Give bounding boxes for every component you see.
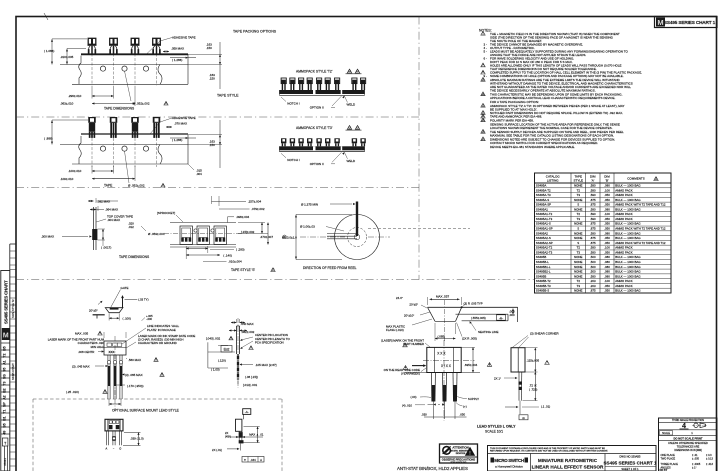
svg-text:.012: .012	[128, 225, 134, 229]
svg-text:THREE PLACE: THREE PLACE	[661, 463, 679, 466]
optional SMT dashed box	[33, 398, 282, 400]
svg-text:BULK — 1000 BAG: BULK — 1000 BAG	[615, 255, 641, 259]
svg-text:.000: .000	[509, 313, 515, 317]
svg-text:'A': 'A'	[591, 178, 595, 182]
svg-text:XXX: XXX	[109, 350, 115, 354]
svg-text:.310±.005: .310±.005	[60, 55, 74, 59]
ammopack sensor	[299, 78, 304, 84]
svg-text:TAPE DIMENSIONS: TAPE DIMENSIONS	[119, 255, 150, 259]
sensor legs	[110, 46, 112, 50]
svg-text:.044: .044	[250, 458, 256, 462]
sensor centerline	[134, 54, 136, 86]
note line	[481, 63, 485, 67]
svg-text:± .005: ± .005	[692, 457, 700, 460]
svg-text:SS495B: SS495B	[536, 255, 547, 259]
svg-text:.115±.005: .115±.005	[527, 359, 540, 363]
svg-text:Ø 13.0±1.0: Ø 13.0±1.0	[282, 235, 297, 239]
svg-text:AMMO PACK: AMMO PACK	[615, 217, 633, 221]
svg-text:TAPE STYLE T2: TAPE STYLE T2	[12, 299, 15, 318]
ammopack leader WELD	[342, 152, 344, 155]
svg-text:(.085): (.085)	[438, 335, 446, 339]
svg-text:GATE: GATE	[121, 286, 129, 290]
note line	[481, 111, 485, 115]
svg-text:( .100): ( .100)	[123, 317, 131, 321]
svg-text:.050: .050	[604, 241, 610, 245]
side view lead tip extension	[519, 401, 521, 414]
tape drawing 1 - bottom dim .296	[91, 86, 93, 99]
ammopack notches in tape	[313, 90, 316, 94]
svg-text:.030: .030	[421, 413, 427, 417]
svg-text:.080: .080	[604, 207, 610, 211]
svg-text:.203: .203	[590, 284, 596, 288]
svg-text:2X (.01): 2X (.01)	[212, 448, 222, 452]
ammopack sensor	[352, 138, 357, 143]
reel drawing - inner dashed hub	[348, 228, 367, 247]
svg-text:SP: SP	[3, 402, 7, 407]
svg-text:S: S	[577, 227, 579, 231]
tape drawing 1 - sprocket dia label	[125, 71, 132, 101]
svg-text:SHEET 1 OF 1: SHEET 1 OF 1	[621, 467, 639, 471]
sensor package on tape (style T2)	[131, 38, 139, 44]
svg-text:SCALE 10/1: SCALE 10/1	[485, 430, 503, 434]
svg-text:BULK — 1000 BAG: BULK — 1000 BAG	[615, 231, 641, 235]
svg-text:DEVICES: DEVICES	[456, 453, 466, 455]
side view gauge box	[519, 415, 528, 420]
svg-text:T2: T2	[577, 279, 581, 283]
SMT feature control frame	[242, 457, 264, 463]
lead centerline extension	[454, 402, 456, 420]
svg-text:.040 MAX: .040 MAX	[241, 322, 254, 326]
svg-text:'B': 'B'	[605, 178, 609, 182]
side view bottom dim	[505, 406, 516, 408]
svg-text:NONE: NONE	[574, 255, 582, 259]
svg-text:.080: .080	[604, 274, 610, 278]
svg-text:T3: T3	[577, 250, 581, 254]
svg-text:.203: .203	[590, 279, 596, 283]
svg-text:.039 ( 1.0): .039 ( 1.0)	[130, 437, 144, 441]
tape drawing 1 - carrier bottom edge	[72, 83, 188, 85]
svg-text:SS495A-T2: SS495A-T2	[536, 188, 551, 192]
svg-text:THIS DOCUMENT CONTAINS A DISCL: THIS DOCUMENT CONTAINS A DISCLOSURE CARD…	[490, 447, 605, 450]
sensor shoulder	[152, 44, 161, 46]
svg-text:BULK — 1000 BAG: BULK — 1000 BAG	[615, 183, 641, 187]
svg-text:.875: .875	[590, 236, 596, 240]
svg-text:WELD: WELD	[347, 103, 357, 107]
table row SS495A1-T3	[535, 220, 672, 222]
svg-text:ANTI-STAT BIN/BOX, HLD2 APPLIE: ANTI-STAT BIN/BOX, HLD2 APPLIES	[397, 466, 468, 471]
revision strip bottom sub-box	[2, 438, 8, 446]
ammopack sensor	[361, 78, 366, 84]
svg-text:BULK — 1000 BAG: BULK — 1000 BAG	[615, 274, 641, 278]
svg-text:(3) R .005 TYP: (3) R .005 TYP	[464, 301, 483, 305]
svg-text:AMMO PACK: AMMO PACK	[615, 250, 633, 254]
tape drawing 2 - right edge	[187, 135, 189, 164]
sensor legs	[132, 46, 134, 50]
svg-text:.560 MAX: .560 MAX	[128, 358, 141, 362]
svg-text:NONE: NONE	[574, 274, 582, 278]
svg-text:.875: .875	[590, 203, 596, 207]
tape drawing 2 - right vertical dim	[219, 120, 221, 168]
svg-text:[.013] .001: [.013] .001	[243, 383, 258, 387]
svg-text:AMMO PACK WITH T2 TAPE AND T12: AMMO PACK WITH T2 TAPE AND T12	[615, 227, 666, 231]
lead dambar bump	[113, 361, 116, 364]
svg-text:(.120): (.120)	[218, 358, 226, 362]
svg-text:.875: .875	[590, 289, 596, 293]
tape drawing 1 - break wave	[158, 65, 162, 85]
svg-text:OPTION II: OPTION II	[310, 162, 324, 166]
SMT side view lead	[238, 431, 240, 443]
svg-text:.100: .100	[604, 246, 610, 250]
note line	[481, 31, 485, 35]
svg-text:.050: .050	[460, 413, 466, 417]
svg-text:6 -: 6 -	[484, 56, 488, 60]
title block divider	[488, 453, 657, 455]
svg-text:.875: .875	[590, 222, 596, 226]
svg-text:DIMENSIONS IN IN [MM]: DIMENSIONS IN IN [MM]	[674, 449, 702, 452]
svg-text:(.03 TY): (.03 TY)	[138, 298, 148, 302]
title block outer box	[488, 446, 657, 471]
svg-text:SS495B-S: SS495B-S	[536, 289, 550, 293]
svg-text:20°±5°: 20°±5°	[89, 309, 98, 313]
svg-text:SS495A-S: SS495A-S	[536, 198, 550, 202]
svg-text:.100: .100	[604, 279, 610, 283]
svg-text:a Honeywell Division: a Honeywell Division	[495, 464, 523, 468]
table column line	[613, 173, 615, 293]
svg-text:.105 MAX [2.67]: .105 MAX [2.67]	[255, 363, 277, 367]
svg-text:AMMO PACK WITH T2 TAPE AND T12: AMMO PACK WITH T2 TAPE AND T12	[615, 203, 666, 207]
svg-text:(3) .065 MAX: (3) .065 MAX	[125, 373, 143, 377]
svg-text:2X: 2X	[225, 431, 228, 435]
svg-text:5 -: 5 -	[484, 49, 488, 53]
gate location arrow	[122, 298, 124, 308]
svg-text:(.04): (.04)	[411, 395, 417, 399]
tape front detail - package pocket	[214, 226, 226, 244]
svg-text:SS495A2-T2: SS495A2-T2	[536, 246, 553, 250]
svg-text:A: A	[260, 458, 262, 462]
svg-text:MAX .557: MAX .557	[436, 295, 450, 299]
tape drawing 2 - sprocket holes	[100, 146, 105, 151]
horizontal phantom separator line 1	[16, 116, 419, 118]
table row SS495B	[535, 278, 672, 280]
tape side view sensor block	[92, 229, 97, 240]
svg-text:( .280): ( .280)	[236, 248, 245, 252]
svg-text:.010±.004: .010±.004	[228, 260, 242, 264]
svg-text:.296±.010: .296±.010	[68, 94, 82, 98]
tape drawing 1 - left torn edge	[79, 56, 82, 85]
ammopack leader NOTCH I	[281, 97, 286, 102]
reel drawing - mandrel bar	[356, 202, 358, 237]
ammopack leader WELD	[342, 96, 344, 99]
svg-text:.470±.007: .470±.007	[260, 235, 274, 239]
tape drawing 1 - adhesive tape bar	[81, 53, 188, 55]
note line	[481, 70, 485, 74]
sensor shoulder	[88, 44, 97, 46]
svg-text:RETURNED UPON REQUEST. ITS CO: RETURNED UPON REQUEST. ITS CONTENTS MAY …	[490, 449, 608, 452]
ammopack sensor	[307, 78, 312, 84]
svg-text:A2: A2	[3, 395, 7, 400]
tape drawing 2 - adhesive tape bar	[81, 133, 188, 135]
svg-text:S: S	[577, 241, 579, 245]
sensor centerline	[113, 138, 115, 167]
svg-text:.050: .050	[604, 236, 610, 240]
top view right end	[517, 307, 519, 322]
svg-text:SS495B1-L: SS495B1-L	[536, 265, 551, 269]
svg-text:PCA SPECIFICATION: PCA SPECIFICATION	[255, 340, 284, 344]
svg-text:± .013: ± .013	[706, 463, 714, 466]
svg-text:T1: T1	[3, 409, 7, 413]
svg-text:( 1.086): ( 1.086)	[44, 49, 54, 53]
svg-text:AMMOPACK STYLE 'T2': AMMOPACK STYLE 'T2'	[296, 70, 333, 74]
tape drawing 1 - left dim 1.086	[51, 39, 53, 65]
svg-text:.875: .875	[590, 198, 596, 202]
svg-text:(2X R .005): (2X R .005)	[462, 336, 477, 340]
svg-text:TOLERANCES ARE: TOLERANCES ARE	[677, 445, 700, 448]
tape drawing 2 - break wave	[158, 145, 162, 165]
svg-text:(3) SHEAR CORNER: (3) SHEAR CORNER	[530, 331, 560, 335]
tape front detail - package pocket	[180, 226, 192, 244]
svg-text:[.040] .002: [.040] .002	[206, 336, 221, 340]
SMT side view body	[236, 419, 242, 431]
svg-text:.050: .050	[604, 203, 610, 207]
ammopack sensor	[316, 138, 321, 143]
svg-text:.157±.004: .157±.004	[248, 200, 262, 204]
gate level mark	[93, 314, 105, 316]
svg-text:-.000: -.000	[146, 317, 152, 321]
table row SS495A-T2	[535, 192, 672, 194]
svg-text:AMMO PACK: AMMO PACK	[615, 212, 633, 216]
svg-text:ATTENTION: ATTENTION	[452, 446, 468, 450]
note line	[481, 129, 485, 133]
SMT front view body	[105, 419, 123, 431]
svg-text:49: 49	[3, 431, 7, 435]
side profile crossing dims	[218, 345, 228, 347]
svg-text:DWG NO 150AB5: DWG NO 150AB5	[620, 455, 641, 459]
horizontal phantom separator line 2	[16, 187, 419, 189]
svg-text:SS: SS	[3, 374, 7, 379]
svg-text:.050: .050	[604, 289, 610, 293]
svg-text:.079±.002: .079±.002	[251, 207, 265, 211]
tape drawing 1 - carrier upper edge	[60, 64, 188, 66]
svg-text:( 1.286): ( 1.286)	[172, 58, 182, 62]
svg-text:T2: T2	[577, 246, 581, 250]
lead centerline extension	[432, 402, 434, 420]
svg-text:9 -: 9 -	[484, 74, 488, 78]
ammopack leader OPTION II	[332, 96, 342, 106]
svg-text:NOTCH I: NOTCH I	[287, 102, 299, 106]
tape drawing 2 - bottom dim .109	[134, 166, 136, 181]
svg-text:SS495B: SS495B	[536, 274, 547, 278]
svg-text:OPTION II: OPTION II	[310, 106, 324, 110]
ammopack sensor	[334, 138, 339, 143]
lead centerline extension	[444, 402, 446, 420]
scale row	[659, 429, 718, 431]
ESD warning triangle	[465, 447, 475, 456]
ESD hand symbol	[442, 446, 451, 455]
table row SS495B1-L	[535, 268, 672, 270]
svg-text:MAX ▲ .01: MAX ▲ .01	[249, 432, 264, 436]
svg-text:TAPE: TAPE	[104, 184, 113, 188]
tape drawing 1 - adhesive tape leader	[160, 38, 172, 42]
svg-text:A1: A1	[3, 360, 7, 365]
svg-text:PLATE' IN PACKAGE: PLATE' IN PACKAGE	[147, 328, 176, 332]
svg-text:(YEAR/WEEK): (YEAR/WEEK)	[401, 372, 420, 376]
table row SS495A2-T3	[535, 254, 672, 256]
ammopack tape bar	[279, 146, 364, 150]
svg-text:[SPROCKET]: [SPROCKET]	[157, 211, 175, 215]
svg-text:.080: .080	[604, 255, 610, 259]
svg-text:BULK — 1000 BAG: BULK — 1000 BAG	[615, 207, 641, 211]
svg-text:SS495A1-S: SS495A1-S	[536, 222, 551, 226]
svg-text:.080: .080	[604, 265, 610, 269]
big front view seating ext	[405, 372, 480, 374]
svg-text:( 1.00): ( 1.00)	[211, 368, 220, 372]
svg-text:± .0005: ± .0005	[692, 463, 701, 466]
svg-text:(3) .045 MAX: (3) .045 MAX	[72, 364, 90, 368]
svg-text:BULK — 1000 BAG: BULK — 1000 BAG	[615, 270, 641, 274]
ammopack sensor	[325, 78, 330, 84]
svg-text:SS495 SERIES CHART: SS495 SERIES CHART	[4, 280, 9, 324]
svg-text:.150: .150	[206, 46, 212, 50]
table outer border	[535, 173, 672, 293]
sensor centerline	[91, 54, 93, 86]
svg-text:MAX .005: MAX .005	[75, 331, 89, 335]
svg-text:( .140): ( .140)	[223, 254, 232, 258]
tape drawing 1 - bottom dim .063	[134, 86, 136, 106]
svg-text:NONE: NONE	[574, 198, 582, 202]
svg-text:.050: .050	[604, 284, 610, 288]
svg-text:(4) .010: (4) .010	[402, 403, 412, 407]
svg-text:MINIATURE RATIOMETRIC: MINIATURE RATIOMETRIC	[538, 458, 598, 463]
tape drawing 1 - dim .310	[66, 49, 68, 65]
svg-text:X X X: X X X	[437, 351, 446, 355]
SMT mid lead polarity mark	[112, 436, 116, 441]
side view body	[511, 348, 525, 372]
package side profile lead	[236, 354, 238, 380]
svg-text:B5: B5	[3, 346, 7, 351]
svg-text:15061: 15061	[3, 458, 7, 466]
table row SS495A2-T2	[535, 249, 672, 251]
svg-text:.080: .080	[604, 260, 610, 264]
tape drawing 1 - dim 1.286	[170, 57, 196, 59]
svg-text:M: M	[657, 18, 663, 27]
sensor leads through tape	[132, 123, 138, 132]
svg-text:.590: .590	[590, 250, 596, 254]
left revision strip right column stub	[9, 244, 11, 271]
table column line	[585, 173, 587, 293]
package front view (mid-left) body	[104, 341, 126, 355]
svg-text:T3: T3	[3, 381, 7, 385]
ammopack leader NOTCH I	[281, 153, 286, 158]
sensor package on tape (style T2)	[153, 38, 161, 44]
svg-text:NONE: NONE	[574, 289, 582, 293]
svg-text:BULK — 1000 BAG: BULK — 1000 BAG	[615, 198, 641, 202]
top view trapezoid outline	[428, 306, 518, 308]
svg-text:.109±.010: .109±.010	[60, 177, 74, 181]
side profile left bracket	[207, 342, 209, 368]
ammopack sensor	[290, 138, 295, 143]
package side profile centerline	[237, 318, 239, 388]
svg-text:2X 1°: 2X 1°	[494, 376, 501, 380]
note line	[481, 114, 485, 118]
svg-text:(.1 .01): (.1 .01)	[541, 405, 550, 409]
svg-text:SS495A-T3: SS495A-T3	[536, 193, 551, 197]
table row SS495B-T2	[535, 282, 672, 284]
big front view leads	[430, 373, 432, 402]
svg-text:SUPPLY: SUPPLY	[468, 397, 479, 401]
revision strip rows	[1, 342, 10, 344]
svg-text:( .886): ( .886)	[44, 137, 53, 141]
svg-text:.590: .590	[590, 207, 596, 211]
svg-text:NONE: NONE	[574, 270, 582, 274]
table row SS495A1-S	[535, 225, 672, 227]
svg-text:.150: .150	[209, 77, 215, 81]
SMT side view horizontal dim	[228, 436, 263, 438]
ammopack sensor	[352, 78, 357, 84]
reel drawing - tape entering	[327, 233, 357, 235]
svg-text:[.15]±.002: [.15]±.002	[241, 230, 255, 234]
table row SS495A-SP	[535, 206, 672, 208]
svg-text:S: S	[577, 203, 579, 207]
svg-text:OPTIONAL SURFACE MOUNT LEAD ST: OPTIONAL SURFACE MOUNT LEAD STYLE	[112, 409, 180, 413]
svg-text:SS495A1-SP: SS495A1-SP	[536, 227, 553, 231]
svg-text:FOR HANDLING: FOR HANDLING	[451, 461, 467, 464]
svg-text:.300 MAX: .300 MAX	[41, 235, 54, 239]
big front view centerlines	[423, 359, 475, 361]
svg-text:(.25 .010): (.25 .010)	[66, 390, 79, 394]
svg-text:( .0017): ( .0017)	[101, 246, 111, 250]
gate detail boat section	[105, 308, 123, 313]
svg-text:.100: .100	[604, 188, 610, 192]
side profile top dims	[231, 322, 237, 324]
svg-text:TAPE PACKING OPTIONS: TAPE PACKING OPTIONS	[233, 30, 277, 34]
svg-text:.050: .050	[604, 227, 610, 231]
SMT side view datum flag	[243, 409, 251, 415]
tape front detail - carrier outline	[170, 222, 236, 224]
sensor centerline	[156, 138, 158, 167]
table row SS495A1	[535, 211, 672, 213]
table row SS495B-L	[535, 263, 672, 265]
ammopack sensor	[281, 138, 286, 143]
vertical phantom separator line	[418, 17, 420, 280]
svg-text:NOTCH I: NOTCH I	[287, 158, 299, 162]
note line	[481, 118, 485, 122]
svg-text:(.555±.005): (.555±.005)	[471, 316, 486, 320]
svg-text:.635±.004: .635±.004	[464, 363, 478, 367]
svg-text:⌖: ⌖	[244, 458, 246, 462]
svg-text:.590: .590	[590, 246, 596, 250]
svg-text:T: T	[4, 441, 6, 445]
svg-text:Ø 1.375 MIN: Ø 1.375 MIN	[301, 202, 318, 206]
svg-text:.050: .050	[604, 250, 610, 254]
table row SS495A2-S	[535, 239, 672, 241]
svg-text:TAPE STYLE 'S': TAPE STYLE 'S'	[231, 268, 255, 272]
sensor package on tape (style T2)	[110, 38, 118, 44]
seating bar datum box	[497, 315, 506, 320]
sensor package on tape (style T3)	[88, 117, 96, 123]
svg-text:SEATING LINE: SEATING LINE	[478, 330, 498, 334]
ammopack sensor	[281, 78, 286, 84]
svg-text:X / X X: X / X X	[441, 364, 452, 368]
svg-text:NONE: NONE	[574, 231, 582, 235]
svg-text:Ø .052±.002: Ø .052±.002	[128, 184, 145, 188]
revision strip right column row ticks	[10, 250, 16, 252]
svg-text:E⌹2: E⌹2	[224, 348, 230, 352]
svg-text:.098±.004: .098±.004	[236, 215, 250, 219]
svg-text:.050: .050	[604, 193, 610, 197]
svg-text:NONE: NONE	[574, 236, 582, 240]
ammopack sensor	[298, 138, 303, 143]
svg-text:SS495B-L: SS495B-L	[536, 260, 550, 264]
